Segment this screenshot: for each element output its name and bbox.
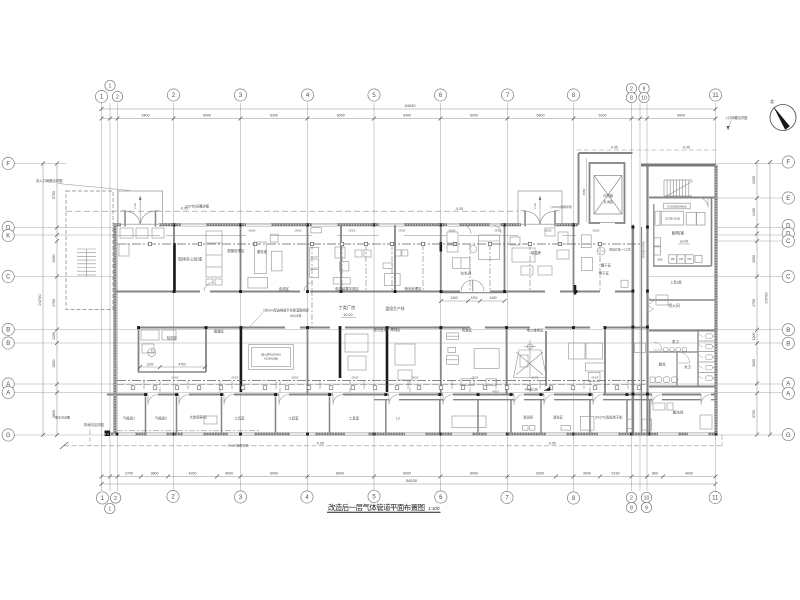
K tag circle (drying) [597,247,605,255]
window in bottom wall [114,432,135,434]
svg-text:6000: 6000 [336,471,344,475]
svg-text:F: F [786,160,790,166]
svg-text:2700: 2700 [125,471,133,475]
K tag circle (cutting room) [148,348,156,356]
belt door marks [648,297,654,305]
svg-text:54530: 54530 [404,103,416,108]
drawing grid: horizontal axis lines [14,164,782,436]
equipment room 4 area [310,247,319,257]
svg-text:DN25: DN25 [232,376,239,380]
window in bottom wall [290,432,315,434]
bathroom stall wall x698 [697,332,699,387]
svg-text:DN50: DN50 [249,229,256,233]
window in left wall [113,362,115,380]
axis bubble 10 [641,492,651,502]
svg-text:DN50: DN50 [593,229,600,233]
svg-text:3050: 3050 [52,255,56,263]
axis bubble B [2,337,14,349]
svg-text:服务室: 服务室 [257,249,268,254]
WC door arc [679,352,690,363]
axis bubble 9 [639,83,649,93]
svg-text:4200: 4200 [189,471,197,475]
svg-text:K: K [6,234,10,240]
svg-text:1200: 1200 [752,333,756,341]
svg-text:8000: 8000 [470,471,478,475]
axis bubble 11 [709,89,721,101]
door leaves [121,210,126,212]
svg-text:F: F [6,162,10,168]
svg-text:5100: 5100 [599,113,607,117]
corridor belt ladder [635,343,646,353]
svg-text:盥洗间: 盥洗间 [673,410,684,415]
left total dimension line 24700 [42,164,44,436]
axis bubble 1 [105,80,115,90]
electrician machine (saw with splayed base) [514,350,547,378]
bottom segment dimension line [102,476,716,478]
window in top wall [312,222,337,224]
window in bottom wall [688,432,708,434]
svg-text:X1500(2台): X1500(2台) [264,357,278,361]
axis bubble 2 [626,492,636,502]
toilet fixture [706,355,713,360]
axis bubble F [782,156,794,168]
svg-text:洗消间: 洗消间 [523,415,534,420]
window in bottom wall [546,432,566,434]
axis bubble 6 [435,491,447,503]
svg-text:3700: 3700 [752,410,756,418]
svg-text:喷火间: 喷火间 [668,303,680,308]
axis bubble B [782,337,794,349]
svg-text:现场办公区域: 现场办公区域 [178,256,202,262]
svg-text:盥洗: 盥洗 [659,362,666,367]
axis bubble 2 [167,89,179,101]
svg-text:-0.05: -0.05 [682,146,690,150]
svg-text:10: 10 [641,95,647,101]
bottom total dimension line 54530 [102,483,716,485]
svg-text:配套处理区: 配套处理区 [228,248,246,253]
svg-text:±0.00: ±0.00 [680,240,689,244]
svg-text:5800: 5800 [537,113,545,117]
wash basins [650,377,655,383]
svg-text:设入口雨棚见详图: 设入口雨棚见详图 [36,178,63,183]
window in right wall [714,297,716,315]
blast room boxes [656,295,668,305]
svg-text:6000: 6000 [403,471,411,475]
axis bubble 4 [301,89,313,101]
svg-text:-0.05: -0.05 [316,442,324,446]
svg-text:G: G [6,433,11,439]
right exterior wall [715,165,718,435]
svg-text:大修保养间: 大修保养间 [190,415,208,420]
right annex wall y330 [649,330,716,332]
entrance canopy 1 [118,191,163,224]
svg-text:2: 2 [114,496,117,502]
svg-text:4750: 4750 [52,299,56,307]
svg-text:11: 11 [712,496,719,502]
svg-text:DN50: DN50 [449,229,456,233]
left annex staircase [77,249,96,277]
svg-text:B: B [6,328,10,334]
svg-text:气瓶间2: 气瓶间2 [155,416,167,421]
axis bubble 5 [368,89,380,101]
svg-text:24700: 24700 [37,294,42,306]
svg-text:3400: 3400 [142,113,150,117]
svg-text:9600: 9600 [225,471,233,475]
pipe vertical drops [311,244,313,290]
svg-text:北: 北 [770,98,774,104]
main building top exterior wall [113,223,121,226]
axis bubble D [782,219,794,231]
elevator door [600,220,615,226]
elevator tower left wall [578,153,580,225]
svg-text:4X4.8米: 4X4.8米 [290,313,302,318]
right segment dimension line [756,162,758,435]
svg-text:±0.00: ±0.00 [344,313,353,317]
svg-text:1200: 1200 [470,296,477,300]
window in bottom wall [598,432,618,434]
svg-text:1: 1 [109,83,112,89]
svg-text:(TK100)雨棚详图: (TK100)雨棚详图 [550,205,571,209]
svg-text:改造后一层气体管道平面布置图: 改造后一层气体管道平面布置图 [328,503,425,512]
gas pipe line (top band) [117,243,640,245]
svg-text:激光处理、焊割区: 激光处理、焊割区 [373,327,401,332]
svg-text:B: B [786,342,790,348]
axis bubble 7 [501,89,513,101]
svg-text:6000: 6000 [270,471,278,475]
office desks room 1-2 [120,228,133,238]
svg-text:DN50: DN50 [295,229,302,233]
svg-text:800: 800 [652,471,658,475]
door jambs [524,210,526,226]
structural columns (black) [173,223,176,226]
annealing furnace [249,345,294,370]
svg-text:气瓶间1: 气瓶间1 [123,416,135,421]
svg-text:4DE: 4DE [657,258,662,262]
elevator tower top wall [579,152,633,154]
window in bottom wall [487,432,505,434]
svg-text:1:12: 1:12 [533,203,537,209]
svg-text:1200: 1200 [146,363,153,367]
svg-text:2450: 2450 [752,208,756,216]
toilet fixture [706,376,713,381]
svg-text:2: 2 [116,94,119,100]
middle band partition walls [138,328,140,373]
svg-text:电源装置存放区: 电源装置存放区 [335,286,359,291]
corridor door arcs [148,395,158,405]
corridor south wall y399.7 (right half) [374,399,389,401]
pipe line bottom band [117,430,260,432]
top total dimension line 54530 [102,108,716,110]
svg-text:17X280=4760: 17X280=4760 [642,241,646,259]
svg-text:风淋区: 风淋区 [462,328,473,333]
axis bubble 2 [626,83,636,93]
left segment dimension line [56,164,58,436]
svg-text:4000: 4000 [685,471,693,475]
toilet stall partitions [698,340,716,342]
room 8-tower [581,235,591,248]
power distribution room contents [654,203,705,263]
svg-text:2: 2 [630,495,633,501]
right total dimension line 24700 [769,162,771,435]
axis bubble 9 [641,502,651,512]
svg-text:2400: 2400 [489,296,496,300]
svg-text:6000: 6000 [203,113,211,117]
axis bubble 11 [709,491,721,503]
axis bubble C [782,235,794,247]
middle band equipment [141,330,646,385]
window in bottom wall [405,432,425,434]
svg-text:4750: 4750 [752,299,756,307]
svg-text:丁类厂房: 丁类厂房 [339,304,356,311]
power room bottom wall [653,265,712,267]
svg-text:8: 8 [630,95,633,101]
svg-text:检割区: 检割区 [167,335,178,340]
svg-text:9: 9 [645,505,648,511]
svg-text:男卫: 男卫 [672,339,679,344]
svg-text:6000: 6000 [337,113,345,117]
svg-text:DN25: DN25 [412,376,419,380]
svg-text:醒干区: 醒干区 [601,263,612,268]
svg-text:管道区: 管道区 [214,329,225,334]
axis bubble 8 [626,92,636,102]
window in right wall [714,205,716,222]
svg-text:3250: 3250 [752,176,756,184]
section marker triangle [544,387,551,391]
svg-text:168: 168 [679,258,684,261]
window in bottom wall [183,432,203,434]
axis bubble 10 [639,92,649,102]
axis bubble 8 [626,502,636,512]
axis bubble G [782,429,794,441]
axis bubble A [2,378,14,390]
svg-text:4500: 4500 [492,389,499,393]
mens door arc [654,342,662,350]
axis bubble 3 [234,491,246,503]
svg-text:-0.05: -0.05 [610,146,618,150]
bathroom partition x677 [676,352,678,387]
svg-text:L2: L2 [396,417,400,421]
window in bottom wall [452,432,472,434]
machines x556-605 [569,343,586,359]
svg-text:B: B [786,328,790,334]
svg-text:2T货梯: 2T货梯 [603,193,614,198]
svg-text:入口雨棚见详图: 入口雨棚见详图 [725,115,747,120]
svg-text:消毒区: 消毒区 [553,415,564,420]
svg-text:2: 2 [630,86,633,92]
svg-text:1200: 1200 [52,332,56,340]
window in right wall [714,250,716,268]
gas pipe lines (middle band) [117,380,645,382]
axis bubble G [2,429,14,441]
svg-text:C: C [786,239,791,245]
axis bubble A [782,377,794,389]
svg-text:3050: 3050 [752,255,756,263]
power room top wall [649,197,716,199]
toilet fixture [706,334,713,339]
wall hatch texture overlays [113,224,121,226]
axis bubble 5 [368,490,380,502]
svg-text:DN25: DN25 [352,376,359,380]
top band partition walls [173,225,175,292]
lower-left corner column [105,431,111,437]
drying room 7-8 [510,237,520,245]
svg-text:3000: 3000 [583,471,591,475]
toilet fixture [706,365,713,370]
axis bubble C [782,270,794,282]
svg-text:DN25: DN25 [592,376,599,380]
svg-text:DN25: DN25 [172,376,179,380]
svg-text:DN50: DN50 [349,229,356,233]
bathroom wall y352 (urinal wall) [649,351,698,353]
power room west wall [653,204,655,266]
svg-text:喷光处理区: 喷光处理区 [405,286,423,291]
svg-text:2X(750)雨棚详图: 2X(750)雨棚详图 [185,204,209,209]
inner line of top wall (row D1) [117,234,160,236]
left exterior wall [114,225,117,434]
svg-text:9: 9 [643,86,646,92]
staircase (right-top block) [664,180,692,196]
svg-text:女卫: 女卫 [684,364,691,369]
door jambs [124,210,126,226]
equipment room 3-4 [254,242,266,274]
window in top wall [181,222,206,224]
entrance canopy 2 [518,191,562,224]
pipe valves [148,242,151,245]
svg-text:排水沟见详图: 排水沟见详图 [84,422,104,427]
axis bubble 2 [112,91,122,101]
cutting room inner dims [140,366,205,368]
svg-text:GGD(800X600): GGD(800X600) [667,204,687,208]
svg-text:保温房: 保温房 [531,250,542,255]
svg-text:C: C [786,275,791,281]
power room door arc [698,198,708,208]
axis bubble 1 [105,503,115,513]
cabinet room 2-3 [206,231,222,277]
svg-text:DN25: DN25 [292,376,299,380]
axis bubble A [782,387,794,399]
toilet fixture [706,344,713,349]
svg-text:散水见详图: 散水见详图 [55,415,70,420]
svg-text:DN50: DN50 [399,229,406,233]
svg-text:见详图: 见详图 [603,199,612,204]
svg-text:2X100宽雨水管: 2X100宽雨水管 [228,443,249,448]
svg-text:A: A [786,392,790,398]
axis bubble 1 [96,492,108,504]
axis bubble K [2,229,14,241]
window in top wall [447,222,459,224]
tower inner dim [586,158,588,222]
svg-text:1: 1 [108,506,111,512]
door arcs top band [204,283,213,292]
window in top wall [246,222,271,224]
laser room machines [345,334,368,352]
svg-text:3800: 3800 [151,471,159,475]
svg-text:54530: 54530 [406,478,418,483]
vertical corridor belt east wall [646,165,648,434]
north arrow compass [770,105,796,131]
svg-text:工具室: 工具室 [349,416,360,421]
window in bottom wall [658,432,678,434]
power room east wall [711,198,713,267]
axis bubble B [2,323,14,335]
window in left wall [113,322,115,342]
svg-text:2X(70)消毒烘干机: 2X(70)消毒烘干机 [595,415,623,420]
interior wall y291 (top band bottom) [115,291,200,293]
window in right wall [714,402,716,420]
thick black wall segments [173,243,176,292]
axis bubble 8 [567,492,579,504]
svg-text:烘干区: 烘干区 [599,271,610,276]
svg-text:配电室: 配电室 [672,230,685,237]
svg-text:3600: 3600 [752,359,756,367]
svg-text:平台面详图: 平台面详图 [525,388,538,392]
svg-text:工具室: 工具室 [234,416,245,421]
belt middle wall [641,227,643,434]
svg-text:8: 8 [630,505,633,511]
axis bubble 7 [501,491,513,503]
axis bubble F [2,157,14,169]
window in bottom wall [147,432,166,434]
svg-text:3000: 3000 [536,471,544,475]
entrance ramp arrow [139,198,141,224]
corridor wall y394.5 [107,394,148,396]
svg-text:4750: 4750 [178,363,185,367]
svg-text:6000: 6000 [677,113,685,117]
axis bubble 3 [234,89,246,101]
axis bubble A [2,386,14,398]
svg-text:B: B [6,341,10,347]
nursing room inner dims 2400 1200 2400 [441,300,505,302]
K tag circle (nursing) [470,246,477,253]
axis bubble 6 [434,89,446,101]
window in top wall [379,222,404,224]
axis bubble 2 [110,493,120,503]
window in bottom wall [228,432,254,434]
svg-text:160: 160 [671,258,676,261]
svg-text:保温房见(一)工艺: 保温房见(一)工艺 [609,248,631,252]
svg-text:1:12: 1:12 [133,203,137,209]
hall double door arcs [461,280,473,292]
svg-text:ZC3B-1100: ZC3B-1100 [665,217,680,221]
axis bubble D [2,221,14,233]
axis bubble 2 [167,490,179,502]
vertical corridor belt west wall [632,225,634,434]
door leaves [521,210,526,212]
bottom band equipment [204,403,712,430]
bathroom wall y386.5 [649,386,716,388]
left annex outline (dashed) [66,191,113,310]
break mark [60,442,68,449]
window in right wall [714,172,716,190]
interior wall under nursing room y292.7 [441,292,507,294]
svg-text:DN50: DN50 [495,229,502,233]
dashed outline above tower [577,149,719,151]
svg-text:G: G [786,433,791,439]
svg-text:24700: 24700 [764,292,769,304]
main building bottom exterior wall [105,433,114,436]
svg-text:150mm厚岩棉板平台保温隔热层: 150mm厚岩棉板平台保温隔热层 [263,308,309,313]
elevator shaft [590,163,625,223]
window in left wall [113,282,115,302]
annex wall y300 [649,299,716,301]
air shower room [447,333,459,340]
window in bottom wall [345,432,368,434]
entrance ramp arrow [539,198,541,224]
svg-text:E: E [786,196,790,202]
svg-text:5750: 5750 [52,191,56,199]
axis bubble 4 [301,491,313,503]
svg-text:C: C [6,275,11,281]
